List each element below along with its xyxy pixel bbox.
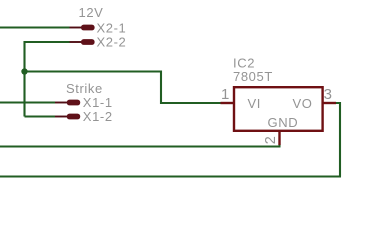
svg-text:Strike: Strike (66, 81, 103, 96)
svg-text:3: 3 (324, 86, 333, 103)
svg-text:2: 2 (263, 136, 279, 145)
svg-text:X2-1: X2-1 (97, 21, 127, 36)
svg-text:VI: VI (248, 96, 261, 111)
wire 12V net to X2-2 (left bend, vertical bus) (25, 42, 70, 117)
voltage regulator IC2 body (234, 87, 323, 131)
connector pin X1-1 (55, 100, 80, 106)
svg-text:12V: 12V (79, 5, 104, 20)
wire GND net from IC2 pin 2 to left edge (0, 145, 281, 147)
IC2 pin 2 GND lead (278, 131, 280, 145)
wire Strike net into X1-1 (0, 101, 55, 103)
IC2 pin 3 VO lead (323, 102, 336, 104)
wire 12V net into X2-1 (0, 26, 70, 28)
svg-text:1: 1 (221, 86, 230, 103)
junction dot (21, 68, 27, 74)
connector pin X1-2 (55, 114, 80, 120)
svg-text:7805T: 7805T (233, 69, 273, 84)
svg-text:X2-2: X2-2 (97, 35, 127, 50)
svg-text:X1-1: X1-1 (83, 95, 113, 110)
svg-text:X1-2: X1-2 (83, 109, 113, 124)
wire branch from junction to IC2 pin VI (25, 72, 222, 104)
svg-text:VO: VO (293, 96, 313, 111)
connector pin X2-1 (70, 25, 95, 31)
wire VO net from IC2 pin 3 down and left (0, 103, 341, 177)
connector pin X2-2 (70, 39, 95, 45)
wire into X1-2 (25, 115, 56, 117)
IC2 pin 1 VI lead (221, 102, 235, 104)
svg-text:GND: GND (268, 115, 299, 130)
